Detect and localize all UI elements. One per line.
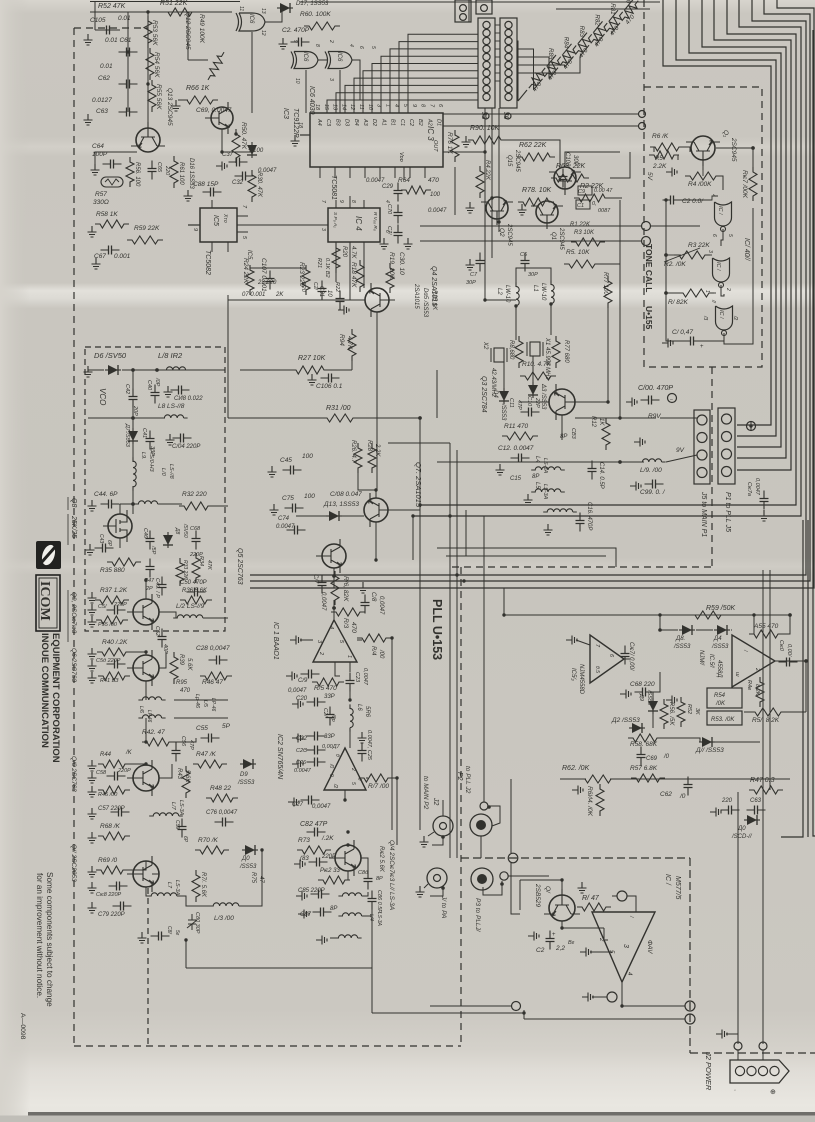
svg-text:С5д 220P: С5д 220P: [96, 658, 121, 664]
resistor R62: [517, 153, 555, 161]
wire bottom filter h: [186, 967, 372, 969]
VCO dashed box: [85, 347, 225, 631]
capacitor C9 box: [578, 186, 592, 195]
svg-text:Vᴅᴅ: Vᴅᴅ: [398, 152, 404, 162]
svg-text:R25 1K: R25 1K: [431, 290, 437, 311]
svg-text:C42: C42: [124, 384, 130, 394]
svg-text:R40 /.2K: R40 /.2K: [102, 639, 128, 646]
wire bus10: [250, 0, 814, 588]
resistor R42: [142, 738, 174, 746]
svg-text:R80: R80: [625, 0, 632, 4]
resistor R51: [163, 8, 197, 16]
resistor R43 5.6K: [182, 766, 190, 798]
svg-text:15: 15: [323, 104, 329, 111]
svg-text:C45: C45: [280, 457, 292, 464]
svg-text:/SS53: /SS53: [237, 780, 255, 786]
wire r23 row: [250, 267, 306, 269]
wire P2 hook: [488, 806, 500, 826]
resistor R59: [127, 236, 163, 244]
pin J3-4: [483, 45, 490, 52]
resistor R44: [98, 760, 130, 768]
svg-text:0.0047: 0.0047: [428, 208, 447, 214]
ground left stack: [84, 34, 93, 45]
svg-text:C44. 6P: C44. 6P: [94, 491, 118, 498]
svg-text:9: 9: [338, 200, 344, 203]
svg-text:NJM4558D: NJM4558D: [578, 664, 584, 695]
op-amp IC5/1: [732, 635, 775, 687]
resistor R24: [246, 265, 254, 295]
svg-text:9: 9: [411, 104, 417, 107]
svg-text:C30. 10: C30. 10: [398, 252, 405, 275]
resistor R70: [195, 846, 229, 854]
svg-text:R10. 4.7K: R10. 4.7K: [522, 361, 552, 368]
svg-text:8: 8: [314, 44, 320, 47]
connector J4 upper: [455, 0, 471, 22]
svg-text:C65: C65: [156, 162, 162, 173]
svg-text:C58: C58: [96, 770, 107, 776]
svg-text:12: 12: [349, 104, 355, 110]
coil L18: [162, 367, 189, 370]
ground q4: [338, 306, 349, 315]
resistor R28: [368, 443, 376, 473]
IC U5 TC5082 body: [200, 208, 237, 242]
svg-text:J/ to PA: J/ to PA: [440, 895, 447, 918]
transistor Q10: [127, 760, 159, 796]
PLL unit dashed box left edge: [73, 28, 75, 1046]
resistor R58 68K: [628, 734, 662, 742]
ground R52: [666, 696, 677, 705]
wire h450: [240, 449, 457, 451]
svg-text:C69: C69: [646, 756, 658, 762]
svg-text:Д0: Д0: [241, 856, 250, 862]
svg-text:/0: /0: [663, 754, 670, 760]
svg-text:2: 2: [598, 937, 604, 942]
svg-text:14: 14: [340, 104, 346, 110]
svg-text:J5 to MAIN P1: J5 to MAIN P1: [700, 491, 707, 537]
wire vdd stub: [403, 167, 405, 180]
svg-text:4: 4: [328, 626, 334, 629]
capacitor C27: [301, 799, 320, 801]
pin J3-9: [483, 85, 490, 92]
svg-text:B1: B1: [390, 119, 396, 126]
FET Q8: [103, 510, 132, 542]
capacitor C59 6P: [181, 819, 183, 838]
resistor R5 tone: [649, 151, 679, 159]
svg-text:L/8 IR2: L/8 IR2: [158, 351, 183, 360]
svg-text:IC6: IC6: [336, 52, 342, 62]
svg-text:R7/. 5.6K: R7/. 5.6K: [200, 872, 206, 898]
svg-text:L-/S/0-H3: L-/S/0-H3: [148, 448, 154, 472]
svg-text:R V₀₀ R₀: R V₀₀ R₀: [372, 212, 378, 231]
svg-text:U•155: U•155: [644, 306, 654, 330]
capacitor C81 5P: [151, 935, 170, 937]
diode D3: [528, 382, 538, 398]
svg-text:/SS53: /SS53: [500, 403, 506, 421]
capacitor C51 220P: [107, 609, 126, 611]
svg-text:R47 0.3: R47 0.3: [750, 777, 775, 784]
transistor Q1 tone: [686, 136, 720, 166]
wire J3-J6 links: [495, 24, 500, 26]
capacitor C23 0.0047: [349, 673, 351, 692]
resistor R32: [179, 502, 213, 510]
resistor R58: [95, 220, 129, 228]
IC U4 TC5081 body: [328, 208, 380, 242]
wire bus2: [676, 0, 776, 436]
ground C18: [359, 582, 368, 593]
coil L6 5R6: [350, 704, 353, 731]
svg-text:B3: B3: [334, 119, 340, 127]
svg-text:47K: 47K: [206, 560, 212, 570]
capacitor C80 30P: [187, 914, 197, 930]
wire bus3: [689, 0, 781, 447]
svg-text:/0P: /0P: [154, 377, 160, 387]
svg-text:2SA1015: 2SA1015: [413, 283, 419, 309]
svg-text:R66 1K: R66 1K: [186, 85, 210, 92]
capacitor C106: [321, 377, 340, 379]
capacitor C32: [235, 175, 254, 177]
capacitor C26: [307, 761, 326, 763]
resistor R30 47K: [248, 170, 256, 202]
svg-text:R6 /K: R6 /K: [652, 133, 669, 140]
svg-text:A3: A3: [362, 118, 368, 127]
wire amp out: [622, 982, 685, 1006]
crystal X2: [494, 348, 504, 362]
resistor R63: [551, 174, 589, 182]
wire osc route b: [446, 555, 606, 557]
svg-text:R52 47K: R52 47K: [98, 3, 126, 10]
svg-text:9V: 9V: [676, 447, 685, 454]
svg-text:23 220: 23 220: [257, 280, 277, 286]
svg-text:R62 22K: R62 22K: [519, 142, 547, 149]
capacitor C19: [301, 673, 320, 675]
svg-text:OUT: OUT: [432, 140, 438, 152]
svg-text:R20: R20: [341, 246, 347, 258]
ground 5V: [666, 168, 677, 177]
capacitor C78 220P: [109, 885, 128, 887]
jack P2 to PLL J2: [470, 814, 492, 836]
svg-text:4.7K: 4.7K: [350, 246, 356, 259]
capacitor C54 220P: [107, 663, 126, 665]
capacitor C45: [283, 469, 302, 471]
resistor R69: [96, 866, 128, 874]
svg-text:0.0047, C25: 0.0047, C25: [366, 730, 372, 761]
svg-text:9: 9: [328, 774, 334, 777]
svg-text:C11: C11: [508, 398, 514, 408]
wire out2: [524, 1018, 685, 1020]
svg-text:2: 2: [318, 651, 324, 655]
resistor R31: [322, 414, 358, 422]
pin J3-2: [483, 29, 490, 36]
diode D17: [277, 7, 293, 9]
svg-text:100: 100: [304, 493, 315, 500]
svg-text:0.1K B2: 0.1K B2: [324, 258, 330, 278]
svg-text:B20: B20: [300, 282, 306, 293]
svg-text:J2: J2: [432, 797, 439, 806]
svg-text:–: –: [670, 397, 673, 403]
svg-text:0,0047: 0,0047: [362, 668, 368, 686]
svg-text:R55 56K: R55 56K: [155, 84, 162, 110]
capacitor C70: [397, 205, 399, 224]
resistor R49 diag: [205, 50, 228, 82]
svg-text:R82: R82: [594, 14, 601, 26]
ground IC1 left: [290, 636, 301, 645]
op-amp IC2 SN76514N: [324, 748, 366, 790]
svg-text:IC/ 40//: IC/ 40//: [743, 238, 750, 262]
svg-text:C2. 470P: C2. 470P: [282, 27, 310, 34]
wire x504 v: [503, 588, 505, 615]
svg-text:L2: L2: [496, 288, 502, 295]
resistor R5: [564, 260, 600, 268]
ring out1: [685, 1001, 695, 1011]
svg-text:C69, 0.0047: C69, 0.0047: [196, 107, 232, 114]
capacitor C48 0.022: [171, 389, 190, 391]
svg-text:C57 220P: C57 220P: [98, 806, 125, 812]
svg-text:0.0047: 0.0047: [276, 524, 295, 530]
resistor R34 47K: [192, 553, 200, 583]
svg-text:0.01: 0.01: [118, 15, 131, 22]
wire Q13 node: [95, 151, 137, 153]
wires Q15 row: [455, 151, 478, 153]
ground D16: [184, 190, 193, 201]
capacitor C40 10P: [154, 385, 156, 404]
svg-text:D2: D2: [371, 119, 377, 126]
resistor R20: [332, 243, 340, 273]
capacitor C37 100: [229, 161, 248, 163]
resistor R47a: [193, 760, 227, 768]
resistor R15 470: [312, 678, 344, 686]
resistor R80 470: [596, 34, 605, 45]
ICOM logo text box: [36, 575, 60, 631]
coil L10b: [134, 501, 161, 504]
svg-text:C28 0,0047: C28 0,0047: [196, 645, 230, 652]
svg-text:C107 0.001: C107 0.001: [260, 258, 267, 292]
capacitor C62 10: [687, 777, 689, 796]
wire R52 top line: [90, 11, 232, 13]
svg-text:⊕: ⊕: [770, 1089, 776, 1096]
resistor R94 4.7K: [348, 329, 356, 361]
svg-text:IC5⁄₂: IC5⁄₂: [570, 668, 576, 681]
svg-text:R42. 47: R42. 47: [142, 729, 165, 736]
svg-text:C63: C63: [96, 108, 108, 115]
pin P1-2: [722, 432, 732, 442]
grounds Q14 area: [294, 860, 305, 869]
capacitor C88 15P: [203, 191, 222, 193]
svg-text:R18 47K: R18 47K: [350, 262, 357, 288]
svg-text:C59: C59: [174, 820, 180, 829]
wire C68 to opamp: [652, 672, 660, 692]
capacitor C99 0.1: [645, 483, 664, 485]
svg-text:IC6: IC6: [248, 14, 254, 24]
svg-text:8P: 8P: [560, 434, 567, 440]
resistor R27: [291, 366, 329, 374]
svg-text:PLL U•153: PLL U•153: [430, 599, 444, 660]
svg-text:IC3: IC3: [282, 108, 289, 119]
svg-text:0.0127: 0.0127: [92, 97, 112, 104]
transistor Q15: [549, 167, 581, 195]
svg-text:C68: C68: [190, 526, 201, 532]
transistor Q5: [316, 539, 346, 573]
wire right-edge bundle A: [781, 520, 803, 837]
svg-text:R44: R44: [100, 752, 112, 758]
svg-text:Some components subject to cha: Some components subject to change: [45, 872, 54, 1007]
TONE CALL unit dashed box: [644, 0, 762, 367]
resistor R45 100: [98, 786, 130, 794]
wire q3 down: [465, 510, 467, 556]
svg-text:2: 2: [725, 287, 731, 291]
svg-text:R30. 47K: R30. 47K: [256, 172, 262, 198]
svg-text:R43: R43: [176, 768, 182, 780]
svg-text:VCO: VCO: [98, 388, 107, 405]
svg-text:LР.46: LР.46: [146, 710, 152, 723]
coil L5: [531, 489, 565, 492]
TX filter dashed edge: [147, 888, 149, 1046]
svg-text:IC /: IC /: [664, 874, 671, 886]
wire P2 down: [480, 836, 482, 858]
pin J6-3: [505, 37, 512, 44]
svg-text:C86 0.5P: C86 0.5P: [376, 890, 382, 913]
wires comparator: [660, 629, 678, 631]
capacitor C44: [101, 503, 120, 505]
svg-text:A4: A4: [316, 118, 322, 126]
svg-text:Вг: Вг: [568, 940, 575, 946]
resistor R41 33: [98, 672, 130, 680]
resistor R23: [302, 265, 310, 295]
svg-text:A—0098: A—0098: [19, 1013, 26, 1040]
svg-text:A2: A2: [426, 118, 432, 126]
diode D12: [629, 727, 645, 729]
svg-text:R24 22K: R24 22K: [242, 258, 249, 284]
svg-text:0,0047: 0,0047: [320, 592, 326, 611]
IC U3 TC9122P body: [310, 113, 443, 167]
svg-text:C50 470P: C50 470P: [180, 580, 207, 586]
wire x457 v: [456, 450, 458, 858]
svg-text:CИ8 0.022: CИ8 0.022: [174, 396, 203, 402]
wire top cut stub: [90, 1, 240, 3]
svg-text:R26. 4.7: R26. 4.7: [350, 440, 356, 463]
pin P1-1: [722, 414, 732, 424]
svg-text:IC6 4030: IC6 4030: [308, 86, 315, 115]
svg-text:11: 11: [238, 6, 244, 11]
svg-text:IC.5⁄/: IC.5⁄/: [708, 654, 714, 669]
svg-text:C43: C43: [98, 534, 104, 543]
svg-text:C6: C6: [520, 252, 528, 258]
resistor R35 680: [107, 558, 141, 566]
svg-text:2: 2: [754, 667, 760, 671]
svg-text:Cѥ7а: Cѥ7а: [746, 482, 752, 496]
AF unit dashed box right edge: [689, 858, 691, 1053]
svg-text:5P: 5P: [222, 723, 231, 730]
svg-text:Q// 2SC2053: Q// 2SC2053: [70, 844, 77, 882]
wire top edge: [300, 1, 660, 3]
svg-text:L6: L6: [356, 704, 362, 711]
capacitor C75: [285, 507, 304, 509]
svg-text:Q1: Q1: [550, 232, 556, 240]
svg-text:/2: /2: [332, 783, 338, 788]
svg-text:13: 13: [260, 8, 266, 14]
resistor R8 680: [515, 336, 523, 368]
wire tc2: [420, 240, 641, 242]
svg-text:R28: R28: [366, 440, 372, 452]
svg-text:C15: C15: [510, 476, 522, 482]
svg-text:R56. /5K: R56. /5K: [668, 702, 674, 726]
capacitor C71: [397, 225, 399, 244]
resistor R48b 8.2K: [756, 677, 764, 707]
svg-text:R78. 10K: R78. 10K: [522, 187, 552, 194]
svg-text:47: 47: [258, 876, 264, 883]
resistor R19: [386, 263, 394, 293]
svg-text:Рѥ2 33: Рѥ2 33: [320, 868, 341, 874]
svg-text:3: 3: [320, 228, 326, 231]
svg-text:C76 0,0047: C76 0,0047: [206, 810, 238, 816]
ring terminal bottom: [607, 992, 617, 1002]
wire long h505: [420, 504, 796, 506]
jack J1 to PA: [427, 868, 447, 888]
svg-text:IC5: IC5: [246, 250, 252, 260]
svg-text:R6И4. /0K: R6И4. /0K: [586, 786, 593, 817]
resistor R56 15K: [660, 699, 668, 729]
diode D16 1SS53: [247, 142, 257, 158]
wire IC3 out right 2: [443, 125, 639, 127]
svg-text:470: 470: [428, 177, 439, 184]
capacitor C10: [521, 411, 540, 413]
svg-text:IC5: IC5: [212, 215, 219, 226]
svg-text:5.6K: 5.6K: [186, 658, 192, 671]
resistor R56 100: [126, 157, 134, 187]
resistor R77b: [604, 276, 612, 308]
svg-text:0,00/: 0,00/: [786, 644, 792, 657]
ground IC5/2: [566, 636, 577, 645]
svg-text:6: 6: [358, 46, 364, 49]
capacitor C104 220P: [173, 437, 192, 439]
coil L12: [173, 615, 207, 618]
wire IC5 left stub: [188, 224, 200, 226]
svg-text:R61 100: R61 100: [178, 162, 184, 185]
svg-text:R33 22K: R33 22K: [182, 560, 188, 580]
resistor R1 47: [577, 903, 611, 911]
svg-text:0,0047: 0,0047: [288, 688, 307, 694]
transistor Q3: [549, 384, 581, 420]
wire top-left verticals: [127, 12, 129, 112]
wires VCO: [132, 370, 134, 390]
wire R9V long: [420, 427, 640, 429]
svg-text:3: 3: [328, 78, 334, 81]
ring P3: [500, 872, 508, 880]
ring mid1: [512, 1002, 521, 1011]
coil L13: [209, 903, 243, 906]
resistor R85 470: [518, 90, 527, 101]
svg-text:C7: C7: [470, 272, 478, 278]
resistor R84 470: [534, 79, 543, 90]
svg-text:2: 2: [328, 39, 334, 43]
svg-text:2SC945: 2SC945: [558, 227, 564, 250]
svg-text:IC2 SN765/4N: IC2 SN765/4N: [276, 734, 283, 780]
PLL unit dashed box top edge: [74, 27, 148, 29]
svg-text:R39: R39: [178, 654, 184, 666]
capacitor C86 0.5P: [371, 891, 373, 910]
svg-text:R45 /00: R45 /00: [98, 792, 118, 798]
svg-text:07 0.001: 07 0.001: [242, 292, 265, 298]
svg-text:ICOM: ICOM: [37, 581, 52, 621]
svg-text:R56. 100: R56. 100: [134, 162, 140, 187]
svg-text:33P: 33P: [324, 734, 335, 740]
resistor R77 680: [552, 336, 560, 368]
svg-text:10: 10: [367, 104, 373, 111]
svg-text:TC5082: TC5082: [204, 250, 211, 275]
svg-text:C68 220: C68 220: [630, 681, 655, 688]
capacitor C2 tone: [663, 199, 682, 201]
coil L17: [149, 813, 183, 816]
op-amp IC5/2: [590, 635, 624, 683]
